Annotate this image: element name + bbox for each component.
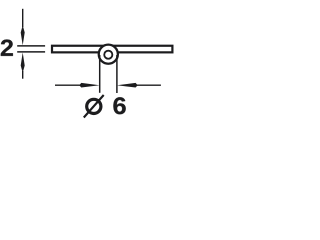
pin inner circle [104, 51, 112, 59]
extension line right [116, 55, 118, 93]
dimension arrowhead pointing left [117, 83, 138, 88]
wire: dimension arrow below (tail) [22, 71, 24, 79]
dimension label 2 (plate thickness) [1, 40, 13, 56]
wire: right dimension tail [137, 84, 161, 86]
dimension arrowhead pointing up at bottom plate line [21, 53, 25, 73]
dimension arrowhead pointing right [79, 83, 99, 88]
wire: left dimension tail [55, 84, 81, 86]
extension line left [99, 55, 101, 93]
dimension label Ø (drawn diameter symbol) [87, 99, 101, 113]
knuckle outer circle [99, 45, 118, 64]
left plate bottom edge line [17, 51, 45, 53]
right leaf bar (outlined rectangle) [52, 46, 172, 53]
wire: dimension arrow above (tail) [22, 9, 24, 27]
dimension label 6 [113, 97, 125, 114]
dimension arrowhead pointing down at top plate line [21, 25, 25, 45]
left plate top edge line [17, 45, 45, 47]
